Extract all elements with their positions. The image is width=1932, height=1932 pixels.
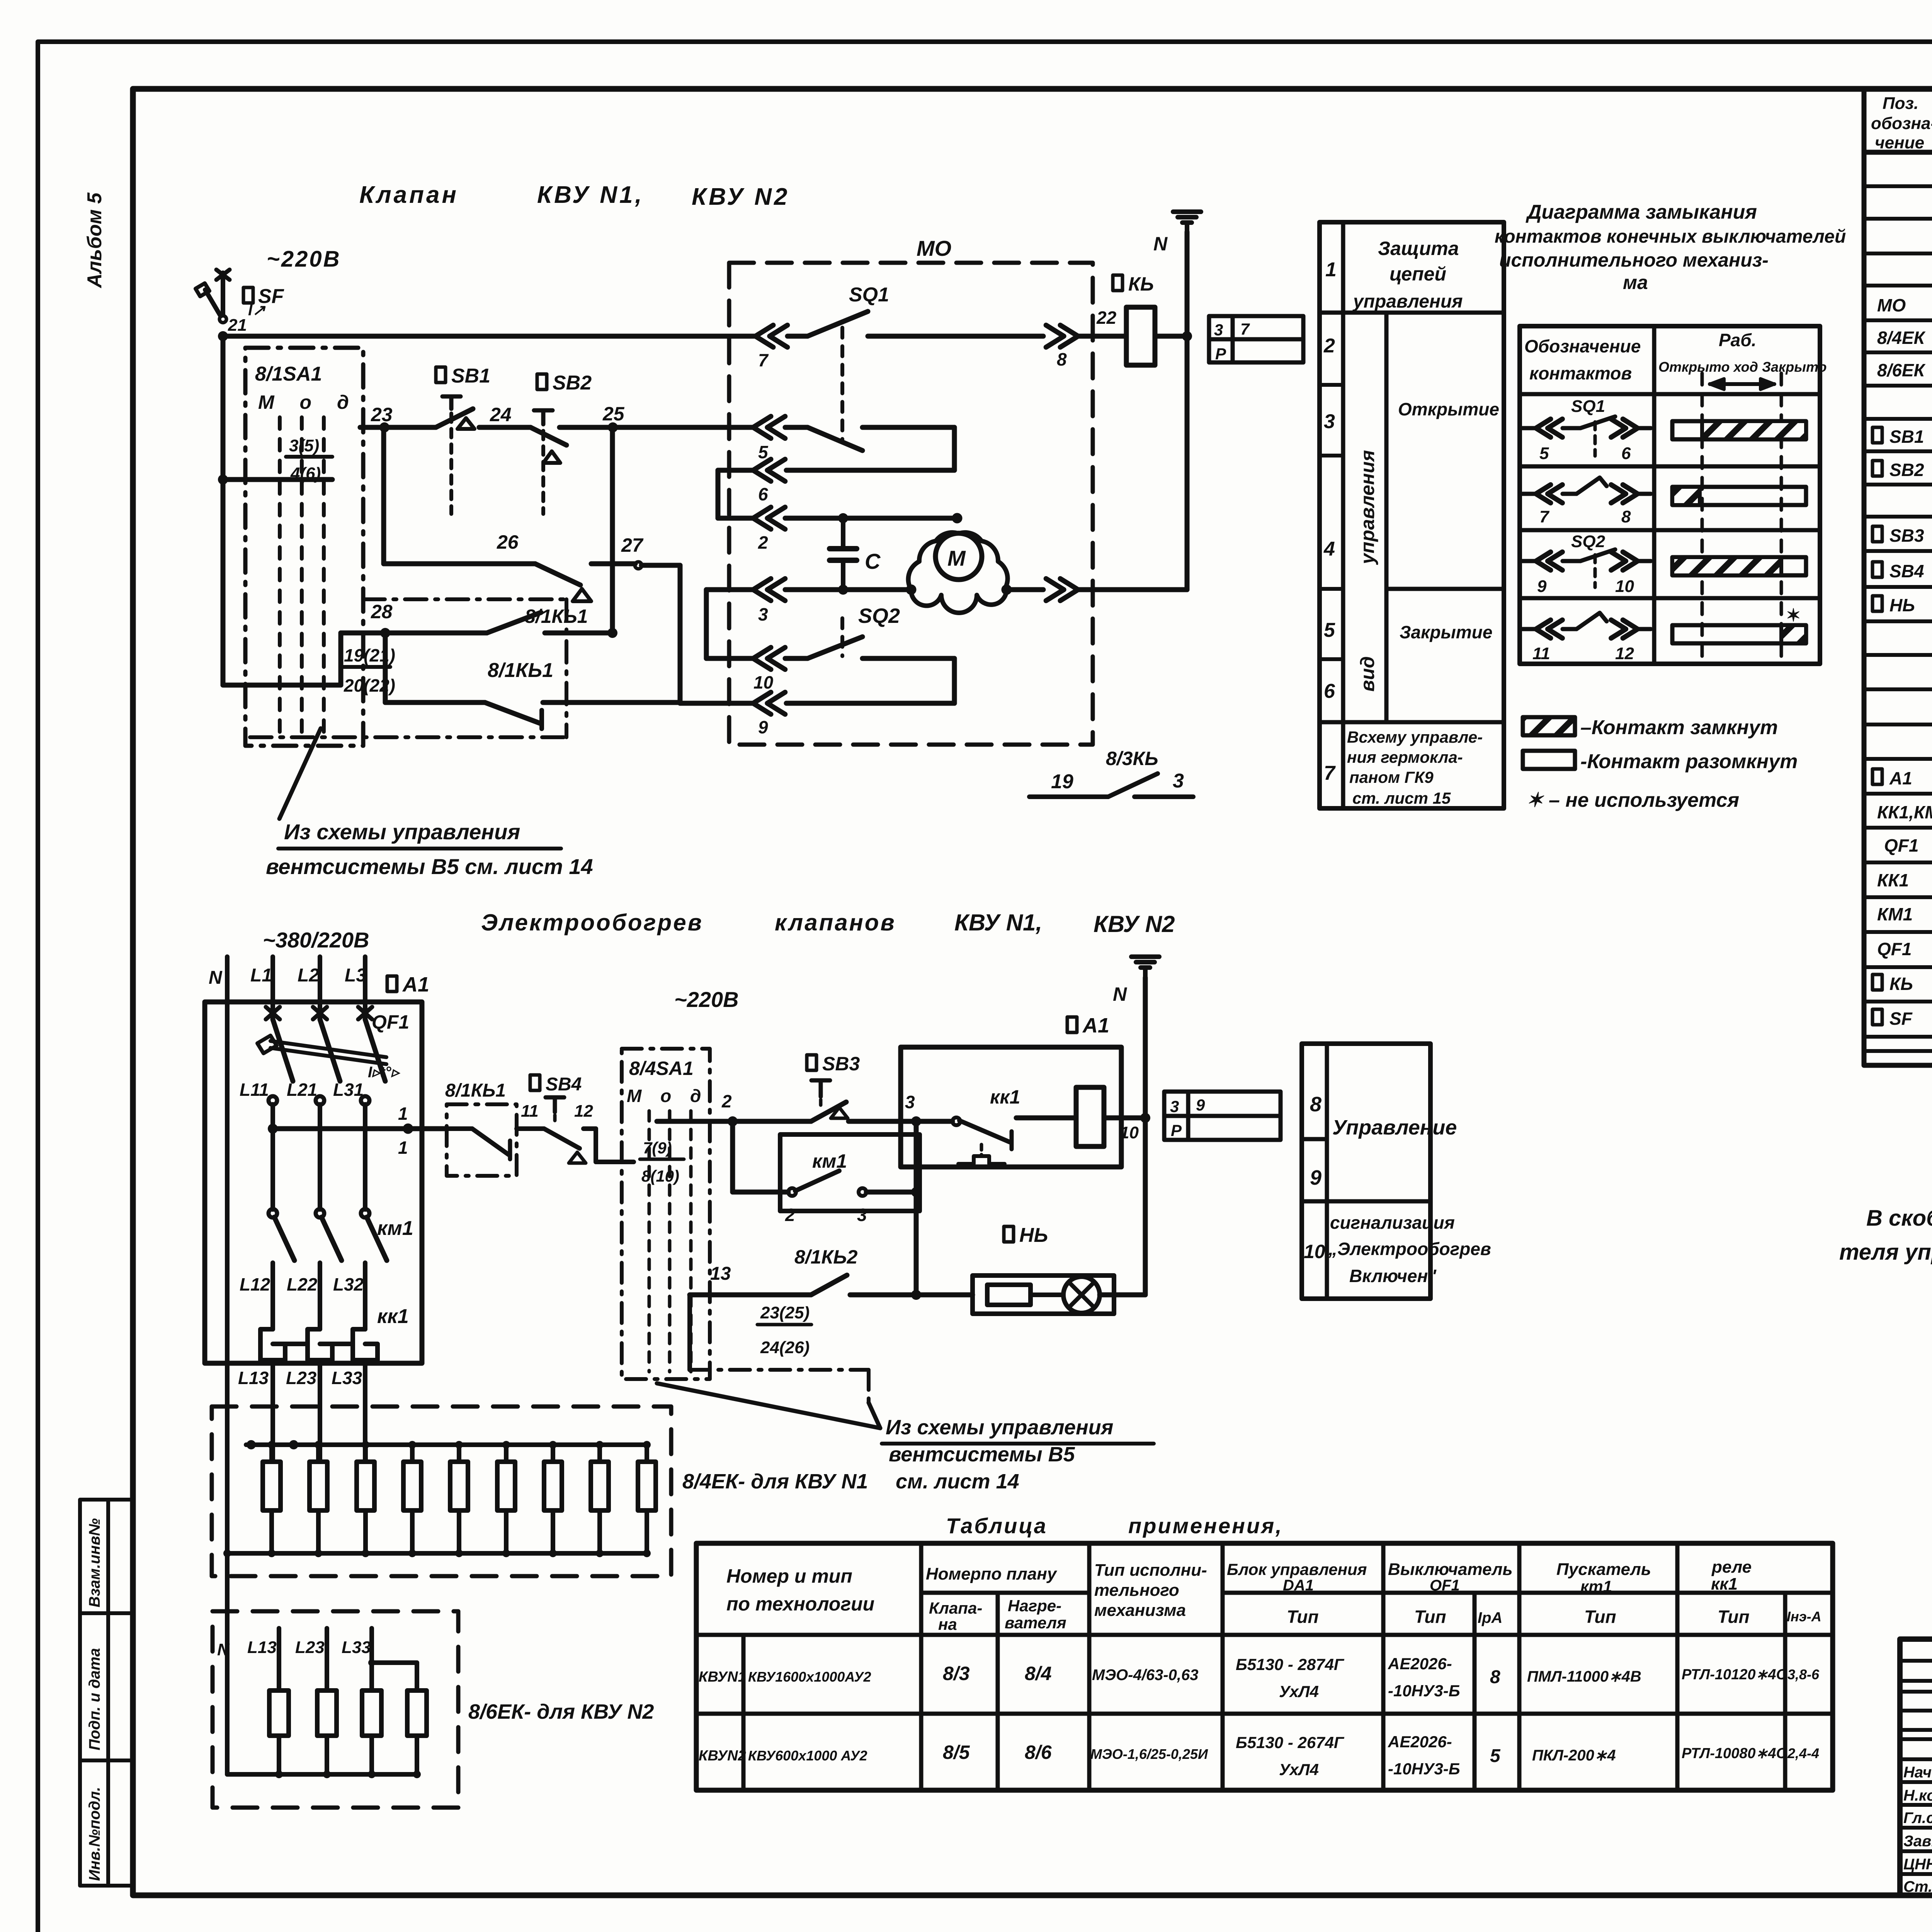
svg-text:8: 8 (1621, 507, 1631, 526)
svg-text:Зав.гр.: Зав.гр. (1903, 1833, 1932, 1850)
destination box Upravlenie / signalizatsiya (1302, 1044, 1430, 1299)
svg-text:QF1: QF1 (1884, 835, 1918, 855)
svg-text:управления: управления (1357, 450, 1378, 565)
svg-text:L33: L33 (342, 1638, 371, 1657)
svg-text:Клапа-: Клапа- (929, 1599, 982, 1617)
svg-text:~220В: ~220В (674, 987, 739, 1012)
svg-text:Пускатель: Пускатель (1556, 1560, 1651, 1579)
svg-text:Взам.инв№: Взам.инв№ (86, 1518, 103, 1607)
heater group 8/4EK dashed box (212, 1406, 671, 1576)
control rail node 23 SB1 24 SB2 25 (360, 425, 384, 430)
stamp box Podp.i data (80, 1613, 133, 1760)
svg-text:9: 9 (1196, 1096, 1205, 1114)
connector arrow to N (motor return) (1046, 578, 1078, 600)
connector pin 6 (753, 459, 785, 481)
svg-text:А1: А1 (1889, 768, 1912, 788)
heater element EK1-8 (591, 1462, 609, 1510)
svg-text:РТЛ-10120∗4С: РТЛ-10120∗4С (1682, 1667, 1787, 1683)
row QSB3 (1872, 526, 1882, 542)
svg-text:27: 27 (621, 534, 644, 556)
svg-text:Нагре-: Нагре- (1008, 1597, 1061, 1615)
row QHL (1872, 596, 1882, 611)
heater element EK1-1 (263, 1462, 281, 1510)
svg-text:1: 1 (1325, 259, 1337, 281)
svg-text:Управление: Управление (1332, 1116, 1457, 1139)
svg-text:8/1КЬ1: 8/1КЬ1 (488, 659, 553, 682)
svg-text:Б5130 - 2874Г: Б5130 - 2874Г (1236, 1655, 1345, 1673)
svg-text:механизма: механизма (1094, 1601, 1186, 1620)
svg-text:ст. лист 15: ст. лист 15 (1352, 789, 1451, 807)
svg-text:8/4SA1: 8/4SA1 (629, 1058, 694, 1079)
svg-text:SB2: SB2 (1889, 460, 1924, 480)
svg-text:L33: L33 (332, 1368, 362, 1388)
svg-text:КВУ1600х1000АУ2: КВУ1600х1000АУ2 (748, 1669, 871, 1685)
svg-text:L13: L13 (247, 1638, 277, 1657)
svg-text:3: 3 (857, 1205, 867, 1225)
table: contact closure diagram (1520, 326, 1820, 664)
svg-text:контактов: контактов (1529, 363, 1632, 383)
svg-text:чение: чение (1875, 133, 1924, 152)
svg-text:Открытие: Открытие (1398, 399, 1499, 419)
svg-text:3: 3 (758, 604, 768, 624)
svg-text:N: N (1113, 983, 1127, 1005)
svg-text:вателя: вателя (1005, 1614, 1066, 1632)
svg-text:8: 8 (1490, 1667, 1500, 1687)
svg-text:2: 2 (1323, 335, 1335, 357)
svg-text:8/1КЬ1: 8/1КЬ1 (525, 605, 588, 627)
svg-text:Раб.: Раб. (1719, 330, 1757, 350)
svg-text:7: 7 (1539, 507, 1550, 526)
svg-text:23: 23 (371, 404, 393, 425)
wire pin8 to QKL node 22 (1078, 334, 1126, 339)
svg-text:3: 3 (1324, 410, 1335, 433)
svg-text:25: 25 (602, 403, 625, 425)
bar row1 (1672, 421, 1806, 439)
svg-text:SB3: SB3 (1889, 526, 1924, 546)
connector pin 5 (753, 416, 785, 438)
svg-text:8/4ЕК: 8/4ЕК (1877, 328, 1926, 348)
svg-text:8/6ЕК- для КВУ N2: 8/6ЕК- для КВУ N2 (468, 1700, 654, 1723)
svg-text:вентсистемы В5: вентсистемы В5 (889, 1443, 1075, 1466)
motor MO (M in cloud) (908, 532, 1008, 590)
connector pin 8 (1046, 325, 1078, 347)
control unit DA1 box (901, 1047, 1121, 1167)
svg-text:~220В: ~220В (267, 247, 341, 272)
svg-text:РТЛ-10080∗4С: РТЛ-10080∗4С (1682, 1745, 1787, 1762)
svg-text:QF1: QF1 (372, 1011, 409, 1033)
svg-text:3: 3 (1214, 321, 1223, 339)
svg-text:контактов конечных выключателе: контактов конечных выключателей (1495, 226, 1846, 247)
row QSB1 (1872, 427, 1882, 443)
svg-text:Р: Р (1215, 345, 1226, 363)
stamp box Vzam.inv (80, 1500, 133, 1613)
svg-text:2: 2 (721, 1091, 732, 1111)
selector switch 8/4SA1 box (622, 1049, 710, 1379)
svg-text:L1: L1 (250, 965, 272, 986)
svg-text:HЬ: HЬ (1019, 1224, 1048, 1247)
control tap node 1 (268, 1124, 278, 1134)
svg-text:км1: км1 (377, 1217, 413, 1240)
svg-text:10: 10 (1615, 577, 1634, 596)
heater element EK1-4 (403, 1462, 421, 1510)
svg-text:L22: L22 (287, 1274, 318, 1294)
wire 220V bus from QSF to QKL (218, 331, 228, 341)
svg-text:21: 21 (228, 316, 247, 335)
svg-text:„Электрообогрев: „Электрообогрев (1328, 1239, 1491, 1259)
svg-text:исполнительного механиз-: исполнительного механиз- (1499, 249, 1769, 271)
svg-text:SB1: SB1 (1889, 427, 1924, 447)
svg-text:по технологии: по технологии (726, 1593, 874, 1615)
svg-text:В скобках указана таркировка с: В скобках указана таркировка секций изби… (1866, 1206, 1932, 1231)
heater element EK1-3 (357, 1462, 374, 1510)
svg-text:HЬ: HЬ (1889, 595, 1915, 615)
svg-text:Всхему управле-: Всхему управле- (1347, 728, 1483, 746)
cable marker box 3/7/P (1209, 316, 1303, 362)
svg-text:Тип: Тип (1718, 1607, 1750, 1627)
svg-text:Блок управления: Блок управления (1227, 1560, 1367, 1578)
svg-text:Электрообогрев: Электрообогрев (481, 910, 703, 935)
svg-text:КВУN2: КВУN2 (699, 1748, 746, 1764)
svg-text:Тип исполни-: Тип исполни- (1094, 1561, 1207, 1580)
aux contact KM1 bypass (780, 1134, 920, 1211)
svg-text:3: 3 (1170, 1097, 1179, 1116)
row QSF (1872, 1009, 1882, 1025)
application table (696, 1543, 1833, 1790)
svg-text:КВУ N2: КВУ N2 (692, 184, 789, 210)
svg-text:SB3: SB3 (822, 1053, 860, 1075)
row QA1 (1872, 769, 1882, 784)
svg-text:10: 10 (1304, 1241, 1325, 1262)
ground symbol N (second) (1131, 954, 1159, 959)
svg-text:L11: L11 (240, 1080, 269, 1100)
svg-text:SQ1: SQ1 (1571, 397, 1605, 416)
svg-text:10: 10 (753, 672, 774, 692)
legend: contact closed (1523, 717, 1575, 735)
svg-text:~380/220В: ~380/220В (263, 928, 369, 952)
connector pin 2 (753, 507, 785, 529)
svg-text:5: 5 (1539, 444, 1549, 463)
svg-text:цепей: цепей (1389, 263, 1446, 285)
wire lower branch to KL contacts (221, 480, 226, 685)
svg-text:КЬ: КЬ (1889, 974, 1913, 994)
svg-text:24(26): 24(26) (760, 1338, 810, 1357)
svg-text:А1: А1 (402, 973, 429, 996)
svg-text:6: 6 (1324, 680, 1335, 702)
wire coil to N node 10 (1104, 1116, 1145, 1121)
table: Zashchita tsepey upravleniya (1320, 222, 1504, 808)
limit switch SQ2 contact + loop to pin 9 (785, 656, 808, 661)
svg-text:QF1: QF1 (1430, 1577, 1460, 1594)
svg-text:DА1: DА1 (1283, 1577, 1314, 1594)
svg-text:8(10): 8(10) (641, 1167, 679, 1185)
svg-text:6: 6 (1621, 444, 1631, 463)
svg-text:М: М (947, 546, 966, 570)
svg-text:8/3: 8/3 (943, 1663, 970, 1684)
svg-text:управления: управления (1352, 291, 1463, 312)
pushbutton QSB1 (open) (436, 367, 446, 383)
relay contact 8/1KL1 lower (NC) (383, 633, 388, 702)
svg-text:АЕ2026-: АЕ2026- (1388, 1655, 1452, 1673)
svg-text:I▹t°▹: I▹t°▹ (368, 1064, 401, 1081)
svg-text:L23: L23 (286, 1368, 317, 1388)
svg-text:Тип: Тип (1414, 1607, 1446, 1627)
svg-text:L13: L13 (238, 1368, 269, 1388)
svg-text:Обозначение: Обозначение (1524, 336, 1641, 356)
svg-text:SQ2: SQ2 (858, 604, 900, 628)
svg-text:С: С (865, 549, 881, 573)
svg-text:клапанов: клапанов (775, 910, 896, 935)
heater element EK2-1 (269, 1690, 289, 1736)
contact 11-12 row (1522, 627, 1536, 631)
svg-text:L23: L23 (295, 1638, 325, 1657)
svg-text:Тип: Тип (1287, 1607, 1319, 1627)
svg-text:N: N (209, 968, 223, 988)
parts list table (1864, 89, 1932, 1065)
svg-text:3: 3 (1173, 770, 1184, 792)
wire pin3-pin10 branch (706, 587, 753, 592)
svg-text:8/4: 8/4 (1025, 1663, 1052, 1684)
wire N rail (1185, 232, 1190, 590)
connector pin 10 (753, 647, 785, 669)
svg-text:9: 9 (1537, 577, 1547, 596)
wire pin2 to motor (785, 516, 957, 521)
heater group 8/6EK dashed box (213, 1611, 458, 1808)
svg-text:3(5): 3(5) (289, 436, 319, 455)
heater bottom bus (227, 1551, 647, 1556)
wire SB4 to selector (583, 1126, 596, 1131)
svg-text:Подп. и дата: Подп. и дата (86, 1648, 103, 1750)
connector pin 9 (753, 692, 785, 714)
ground symbol N (top) (1173, 209, 1201, 214)
svg-text:✶ – не используется: ✶ – не используется (1526, 789, 1739, 811)
svg-text:QF1: QF1 (1877, 939, 1912, 959)
svg-text:Открыто ход Закрыто: Открыто ход Закрыто (1658, 359, 1827, 375)
svg-text:7: 7 (758, 350, 769, 370)
svg-text:12: 12 (1615, 644, 1634, 663)
svg-text:теля управления 8/1 SA1 для к: теля управления 8/1 SA1 для клапана КВУ … (1839, 1240, 1932, 1265)
svg-text:8/6ЕК: 8/6ЕК (1877, 360, 1926, 380)
circuit breaker QF1 3-pole (266, 1007, 280, 1019)
svg-text:SQ1: SQ1 (849, 284, 889, 306)
cable marker box 3/9/P (2) (1164, 1092, 1281, 1140)
svg-text:КВУN1: КВУN1 (699, 1669, 746, 1685)
heater feeds (2) (277, 1628, 281, 1690)
svg-text:7(9): 7(9) (643, 1139, 672, 1157)
svg-text:3: 3 (905, 1092, 915, 1112)
svg-text:L2: L2 (298, 965, 319, 986)
svg-text:26: 26 (497, 531, 519, 553)
svg-text:L12: L12 (240, 1274, 270, 1294)
svg-text:7: 7 (1240, 320, 1250, 338)
svg-text:ПКЛ-200∗4: ПКЛ-200∗4 (1532, 1747, 1616, 1764)
svg-text:Диаграмма замыкания: Диаграмма замыкания (1526, 201, 1757, 223)
svg-text:2,4-4: 2,4-4 (1787, 1745, 1819, 1761)
svg-text:КВУ N1,: КВУ N1, (954, 910, 1042, 935)
svg-text:28: 28 (371, 601, 393, 622)
selector switch 8/1SA1 box (245, 348, 363, 746)
svg-text:SF: SF (1889, 1009, 1913, 1029)
signal lamp QHL (1004, 1226, 1014, 1242)
svg-text:–Контакт замкнут: –Контакт замкнут (1580, 716, 1778, 739)
svg-text:Номерпо плану: Номерпо плану (926, 1565, 1058, 1583)
svg-text:кк1: кк1 (990, 1086, 1020, 1108)
capacitor C (841, 518, 845, 549)
svg-text:КЬ: КЬ (1128, 273, 1154, 295)
mech link dash-dot from SA1 (363, 597, 566, 601)
svg-text:12: 12 (574, 1102, 593, 1121)
svg-text:1: 1 (398, 1104, 408, 1124)
svg-text:МО: МО (1877, 295, 1906, 315)
svg-text:вентсистемы В5 см. лист 14: вентсистемы В5 см. лист 14 (266, 854, 593, 879)
title block (stamp) (1900, 1639, 1932, 1895)
svg-text:Р: Р (1171, 1121, 1182, 1139)
bar row2 (1672, 487, 1806, 505)
wire pin6 to pin2 branch (718, 468, 753, 473)
callout: iz skhemy upravleniya ventsistemy V5 (279, 728, 321, 819)
svg-text:Защита: Защита (1378, 238, 1459, 259)
svg-text:применения,: применения, (1128, 1514, 1283, 1538)
svg-text:МО: МО (917, 236, 951, 260)
svg-text:SB1: SB1 (451, 365, 490, 387)
svg-text:11: 11 (521, 1102, 539, 1121)
svg-text:ПМЛ-11000∗4В: ПМЛ-11000∗4В (1527, 1668, 1641, 1685)
svg-text:8: 8 (1057, 349, 1067, 369)
svg-text:Iнэ-А: Iнэ-А (1787, 1609, 1821, 1624)
svg-text:N: N (1153, 233, 1168, 255)
feeder verticals N L1 L2 L3 (225, 957, 230, 997)
travel arrows (1710, 382, 1774, 386)
row QSB4 (1872, 562, 1882, 577)
svg-text:км1: км1 (812, 1150, 847, 1172)
svg-text:-10НУ3-Б: -10НУ3-Б (1388, 1682, 1460, 1700)
contactor coil KM1 (1016, 1116, 1076, 1121)
svg-text:паном ГК9: паном ГК9 (1349, 768, 1434, 786)
svg-text:23(25): 23(25) (760, 1303, 810, 1322)
limit switch SQ1 lower contact + loop to pin 6 (785, 425, 808, 430)
svg-text:Тип: Тип (1584, 1607, 1616, 1627)
heater element EK1-9 (638, 1462, 656, 1510)
breaker QSF (221, 273, 225, 315)
svg-text:кк1: кк1 (377, 1305, 409, 1328)
svg-text:22: 22 (1096, 308, 1117, 328)
svg-text:УхЛ4: УхЛ4 (1279, 1760, 1319, 1779)
svg-text:SF: SF (258, 285, 284, 308)
svg-text:Поз.: Поз. (1883, 94, 1918, 113)
svg-text:8/4ЕК- для КВУ N1: 8/4ЕК- для КВУ N1 (682, 1470, 868, 1493)
svg-text:8/5: 8/5 (943, 1742, 970, 1763)
svg-text:ния гермокла-: ния гермокла- (1347, 748, 1463, 766)
connector pin 3 / motor row (753, 578, 785, 600)
svg-text:КК1,КМ1: КК1,КМ1 (1877, 802, 1932, 822)
svg-text:на: на (938, 1615, 957, 1633)
wire QKL to N (1155, 334, 1187, 339)
contact 26 row (381, 427, 386, 564)
svg-text:13: 13 (710, 1264, 731, 1284)
svg-text:L21: L21 (287, 1080, 317, 1100)
svg-text:тельного: тельного (1094, 1581, 1179, 1600)
row QSB2 (1872, 461, 1882, 476)
svg-text:обозна-: обозна- (1871, 114, 1932, 133)
svg-text:КВУ N1,: КВУ N1, (537, 182, 644, 208)
relay contact 8/1KL1 (second circuit) (447, 1104, 517, 1176)
svg-text:сигнализация: сигнализация (1330, 1213, 1455, 1233)
legend: contact open (1523, 751, 1575, 769)
svg-text:8/6: 8/6 (1025, 1742, 1052, 1763)
svg-text:8/1SA1: 8/1SA1 (255, 363, 322, 385)
svg-text:L32: L32 (333, 1274, 364, 1294)
svg-text:4: 4 (1323, 538, 1335, 560)
svg-text:7: 7 (1324, 762, 1336, 784)
svg-text:-10НУ3-Б: -10НУ3-Б (1388, 1760, 1460, 1778)
row QKL (1872, 975, 1882, 990)
svg-text:Инв.№подл.: Инв.№подл. (86, 1787, 103, 1881)
svg-text:19: 19 (1051, 770, 1073, 793)
callout iz skhemy (2) (657, 1383, 880, 1428)
svg-text:3,8-6: 3,8-6 (1787, 1667, 1820, 1682)
lamp wires (916, 1293, 973, 1298)
heater bottom bus (2) (227, 1772, 417, 1777)
svg-text:МЭО-4/63-0,63: МЭО-4/63-0,63 (1092, 1667, 1199, 1684)
svg-text:10: 10 (1120, 1123, 1139, 1142)
poles between QF1 and KM1 (270, 1104, 275, 1209)
svg-text:А1: А1 (1082, 1014, 1109, 1037)
svg-text:МЭО-1,6/25-0,25И: МЭО-1,6/25-0,25И (1090, 1746, 1208, 1762)
svg-text:Таблица: Таблица (946, 1514, 1048, 1538)
svg-text:кк1: кк1 (1711, 1575, 1738, 1594)
svg-text:см. лист 14: см. лист 14 (896, 1470, 1019, 1493)
svg-text:SQ2: SQ2 (1571, 532, 1605, 551)
svg-text:24: 24 (490, 404, 512, 425)
svg-text:4(6): 4(6) (290, 464, 321, 483)
svg-text:8: 8 (1310, 1093, 1321, 1116)
svg-text:Ст.техн.: Ст.техн. (1903, 1878, 1932, 1895)
svg-text:20(22): 20(22) (344, 675, 395, 696)
svg-text:Альбом 5: Альбом 5 (83, 192, 106, 289)
pushbutton QSB2 (close) (537, 374, 547, 389)
heater element EK2-4 (407, 1690, 427, 1736)
svg-text:кт1: кт1 (1580, 1577, 1612, 1595)
svg-text:УхЛ4: УхЛ4 (1279, 1682, 1319, 1701)
stamp box Inv.N podl (80, 1760, 133, 1886)
limit switch SQ1 upper contact (787, 334, 808, 339)
svg-text:ма: ма (1623, 272, 1648, 293)
svg-text:Закрытие: Закрытие (1400, 622, 1492, 642)
svg-text:реле: реле (1711, 1558, 1752, 1577)
svg-text:5: 5 (1324, 619, 1335, 641)
svg-text:6: 6 (758, 484, 768, 504)
svg-text:Из схемы управления: Из схемы управления (886, 1416, 1113, 1439)
N rail (second) (1143, 978, 1148, 1295)
svg-text:КК1: КК1 (1877, 870, 1909, 890)
svg-text:КВУ600х1000 АУ2: КВУ600х1000 АУ2 (748, 1748, 867, 1764)
heater element EK1-6 (497, 1462, 515, 1510)
svg-text:8/1КЬ2: 8/1КЬ2 (794, 1246, 858, 1268)
heater element EK2-2 (317, 1690, 337, 1736)
svg-text:8/3КЬ: 8/3КЬ (1106, 748, 1158, 769)
contact 7-8 row (1522, 492, 1536, 496)
svg-text:Включен": Включен" (1349, 1266, 1437, 1286)
svg-text:Выключатель: Выключатель (1388, 1560, 1513, 1579)
cabinet QA1 box (205, 1002, 422, 1363)
svg-text:2: 2 (758, 532, 768, 553)
heater element EK1-2 (310, 1462, 327, 1510)
wire QSF down-branch to SA1 (221, 336, 226, 480)
relay coil QKL (1126, 307, 1155, 365)
svg-text:SB2: SB2 (553, 372, 592, 394)
pushbutton QSB3 (807, 1055, 816, 1070)
svg-text:2: 2 (785, 1205, 795, 1225)
svg-text:вид: вид (1357, 656, 1378, 692)
